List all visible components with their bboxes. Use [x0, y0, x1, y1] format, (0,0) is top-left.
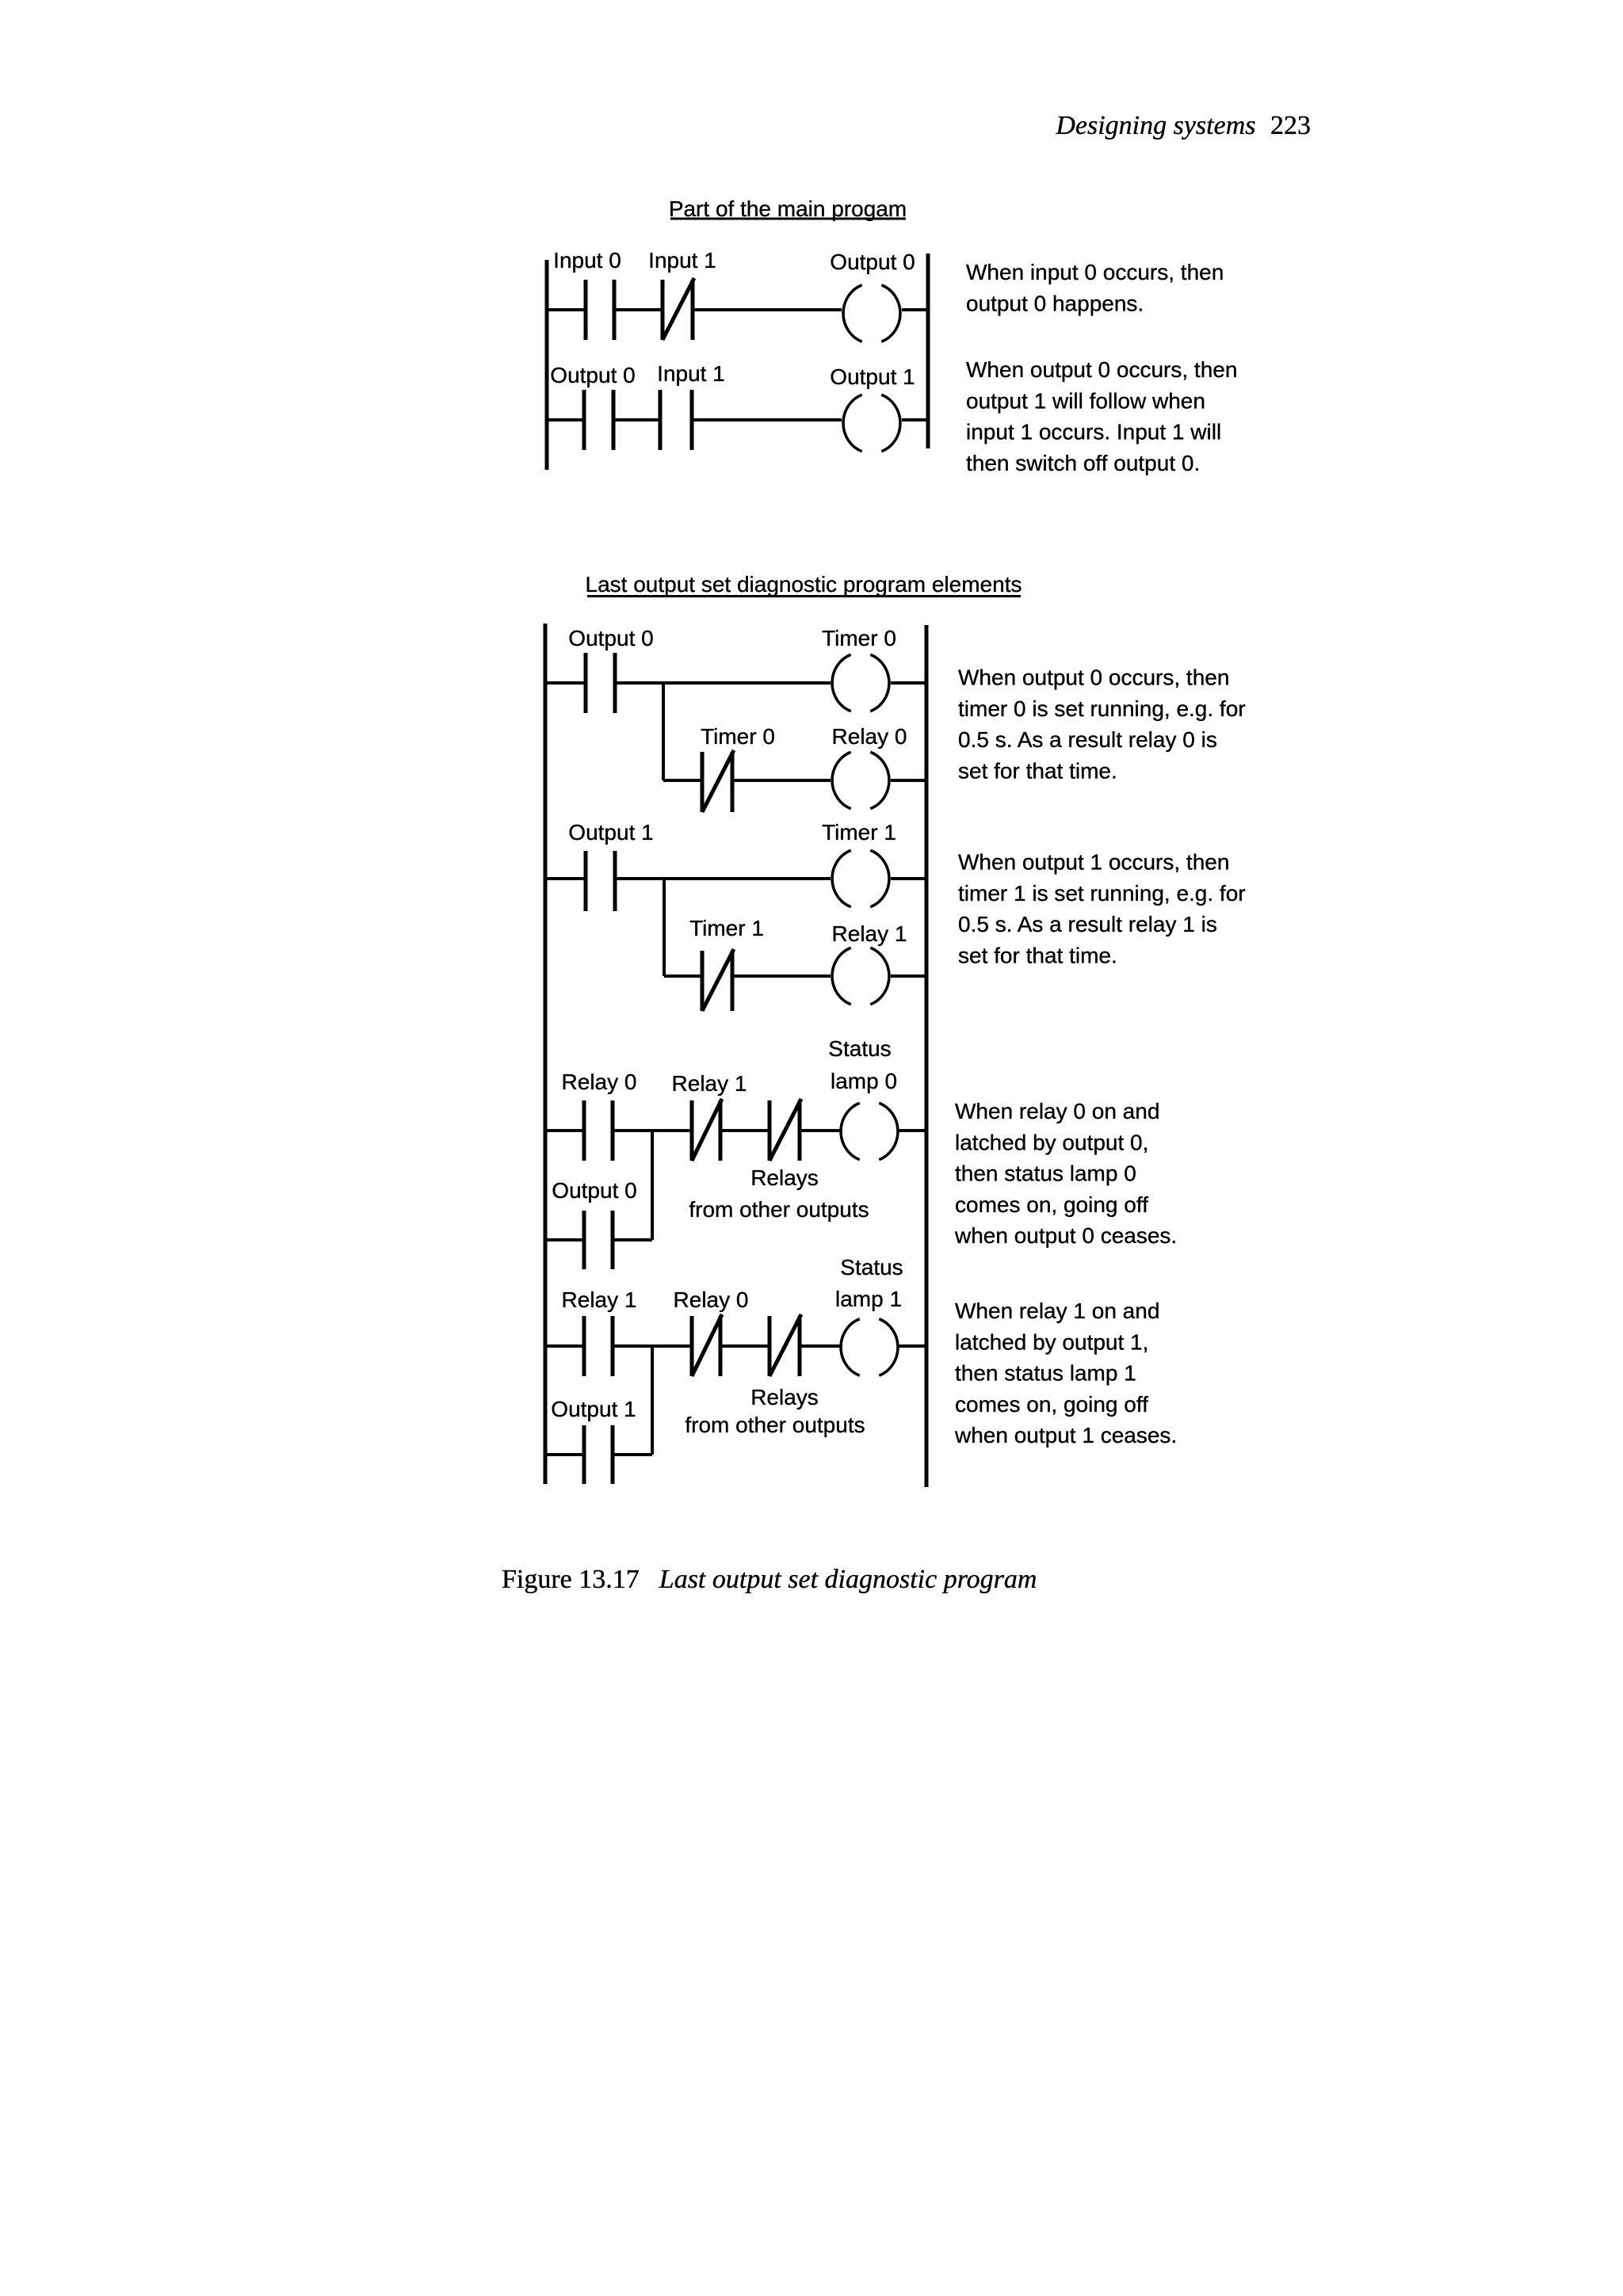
svg-text:Relay 0: Relay 0 — [674, 1287, 749, 1312]
svg-text:output 1 will follow when: output 1 will follow when — [966, 388, 1205, 413]
svg-text:Output 1: Output 1 — [568, 820, 653, 845]
svg-text:when output 1 ceases.: when output 1 ceases. — [954, 1423, 1177, 1447]
svg-text:then status lamp 1: then status lamp 1 — [955, 1361, 1136, 1386]
svg-text:Timer 0: Timer 0 — [701, 724, 775, 749]
svg-text:output 0 happens.: output 0 happens. — [966, 291, 1144, 315]
svg-text:Timer 1: Timer 1 — [822, 820, 896, 845]
svg-text:Output 1: Output 1 — [551, 1397, 636, 1421]
svg-text:Input 1: Input 1 — [657, 361, 725, 386]
svg-text:Output 1: Output 1 — [830, 364, 915, 389]
svg-text:timer 0 is set running, e.g. f: timer 0 is set running, e.g. for — [958, 696, 1246, 721]
svg-text:When relay 0 on and: When relay 0 on and — [955, 1099, 1159, 1123]
svg-text:Designing systems 223: Designing systems 223 — [1055, 111, 1311, 140]
svg-text:Relay 1: Relay 1 — [832, 921, 907, 946]
svg-text:Status: Status — [840, 1255, 903, 1280]
svg-text:When relay 1 on and: When relay 1 on and — [955, 1299, 1159, 1323]
svg-text:When output 0 occurs, then: When output 0 occurs, then — [958, 666, 1229, 690]
svg-text:lamp 1: lamp 1 — [835, 1287, 902, 1311]
svg-text:Output 0: Output 0 — [550, 363, 635, 387]
svg-text:Timer 1: Timer 1 — [689, 916, 764, 940]
svg-text:Timer 0: Timer 0 — [822, 626, 896, 650]
svg-text:Relay 1: Relay 1 — [562, 1287, 637, 1312]
svg-text:set for that time.: set for that time. — [958, 758, 1117, 783]
svg-text:When input 0 occurs, then: When input 0 occurs, then — [966, 260, 1224, 284]
svg-text:then switch off output 0.: then switch off output 0. — [966, 451, 1200, 475]
svg-text:latched by output 1,: latched by output 1, — [955, 1329, 1148, 1354]
svg-text:Last output set diagnostic pro: Last output set diagnostic program eleme… — [586, 572, 1022, 597]
svg-text:0.5 s. As a result relay 0 is: 0.5 s. As a result relay 0 is — [958, 727, 1217, 752]
svg-text:set for that time.: set for that time. — [958, 943, 1117, 967]
svg-text:0.5 s. As a result relay 1 is: 0.5 s. As a result relay 1 is — [958, 912, 1217, 936]
svg-text:Part of the main progam: Part of the main progam — [669, 196, 907, 221]
svg-text:Relay 0: Relay 0 — [562, 1070, 637, 1094]
svg-text:comes on, going off: comes on, going off — [955, 1192, 1148, 1217]
svg-text:Output 0: Output 0 — [568, 626, 653, 650]
svg-text:Relay 0: Relay 0 — [832, 724, 907, 749]
svg-text:Output 0: Output 0 — [552, 1178, 636, 1203]
svg-text:Figure 13.17Last output set di: Figure 13.17Last output set diagnostic p… — [502, 1565, 1037, 1594]
svg-text:then status lamp 0: then status lamp 0 — [955, 1161, 1136, 1186]
svg-text:when output 0 ceases.: when output 0 ceases. — [954, 1223, 1177, 1248]
svg-text:timer 1 is set running, e.g. f: timer 1 is set running, e.g. for — [958, 881, 1246, 906]
svg-text:When output 1 occurs, then: When output 1 occurs, then — [958, 850, 1229, 875]
svg-text:Output 0: Output 0 — [830, 250, 915, 274]
svg-text:from other outputs: from other outputs — [685, 1413, 865, 1437]
svg-text:When output 0 occurs, then: When output 0 occurs, then — [966, 357, 1237, 382]
svg-text:lamp 0: lamp 0 — [831, 1069, 897, 1093]
svg-text:Status: Status — [828, 1036, 891, 1061]
svg-text:Input 1: Input 1 — [648, 248, 716, 273]
svg-text:Relays: Relays — [750, 1385, 819, 1409]
svg-text:Input 0: Input 0 — [553, 248, 621, 273]
svg-text:input 1 occurs. Input 1 will: input 1 occurs. Input 1 will — [966, 420, 1221, 444]
svg-text:comes on, going off: comes on, going off — [955, 1392, 1148, 1417]
svg-text:Relay 1: Relay 1 — [672, 1071, 747, 1096]
svg-text:Relays: Relays — [750, 1165, 819, 1190]
svg-text:from other outputs: from other outputs — [689, 1197, 869, 1222]
svg-text:latched by output 0,: latched by output 0, — [955, 1130, 1148, 1154]
